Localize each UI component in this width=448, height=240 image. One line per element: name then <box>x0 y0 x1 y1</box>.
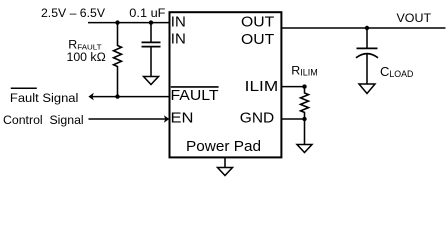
node junction VIN / C1 <box>149 20 153 24</box>
IC U1 body <box>170 12 282 157</box>
node junction VIN / RFAULT <box>115 20 119 24</box>
svg-text:VOUT: VOUT <box>397 11 432 25</box>
resistor RFAULT <box>114 23 122 97</box>
ground (C1) <box>144 77 159 85</box>
svg-text:OUT: OUT <box>241 14 274 31</box>
wire Power Pad to ground <box>224 158 226 168</box>
wire ILIM (to RILIM) <box>282 86 305 88</box>
svg-text:FAULT: FAULT <box>171 87 219 104</box>
node junction VOUT / CLOAD <box>365 26 369 30</box>
svg-text:100 kΩ: 100 kΩ <box>67 50 106 64</box>
wire EN (Control Signal to EN pin, arrow right) <box>89 118 167 120</box>
svg-text:Fault Signal: Fault Signal <box>10 91 79 105</box>
svg-text:IN: IN <box>171 13 186 30</box>
svg-text:Control Signal: Control Signal <box>3 113 84 127</box>
pin FAULT overline <box>171 86 219 88</box>
svg-text:2.5V – 6.5V: 2.5V – 6.5V <box>41 6 106 20</box>
wire VIN (supply to IN pin) <box>88 22 170 24</box>
ground (CLOAD) <box>359 84 375 94</box>
svg-text:GND: GND <box>240 110 275 127</box>
svg-text:EN: EN <box>171 110 194 127</box>
svg-text:OUT: OUT <box>241 31 274 48</box>
wire VOUT (OUT pins to VOUT) <box>282 27 446 29</box>
wire RILIM to ground <box>304 119 306 145</box>
node junction GND / RILIM / ground <box>302 117 306 121</box>
resistor RILIM <box>301 87 309 119</box>
ground (RILIM) <box>297 145 312 153</box>
capacitor C1 0.1uF <box>150 23 152 43</box>
wire GND (GND pin to RILIM bottom) <box>282 118 305 120</box>
node junction ILIM / RILIM <box>302 84 306 88</box>
svg-text:ILIM: ILIM <box>245 78 279 95</box>
capacitor CLOAD <box>366 28 368 48</box>
node junction RFAULT / FAULT wire <box>115 94 119 98</box>
Fault Signal overline <box>11 87 37 89</box>
ground (Power Pad) <box>218 168 233 176</box>
svg-text:IN: IN <box>171 31 186 48</box>
wire FAULT (to Fault Signal, arrow left) <box>92 96 170 98</box>
svg-text:0.1 uF: 0.1 uF <box>129 6 166 20</box>
svg-text:Power Pad: Power Pad <box>186 139 261 155</box>
